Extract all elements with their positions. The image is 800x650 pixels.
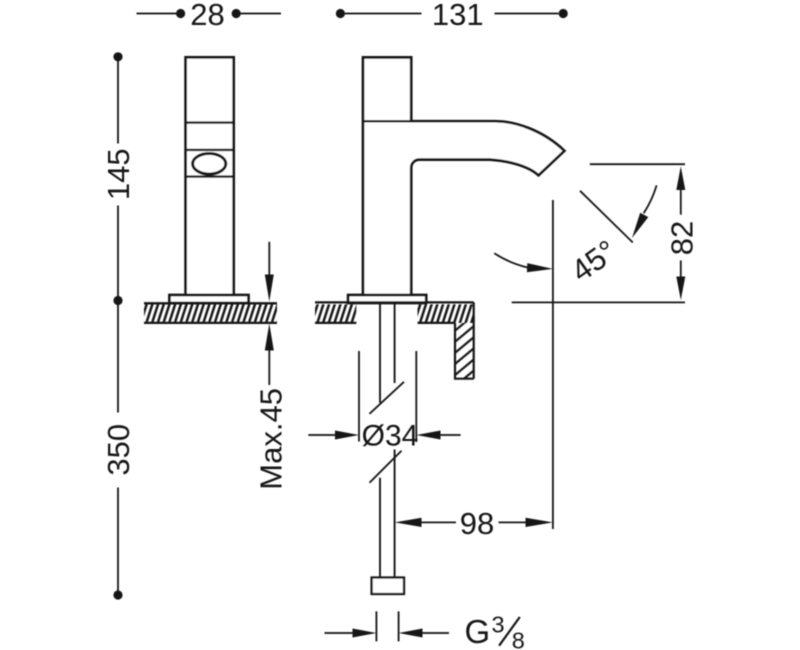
G3/8 arrow right — [399, 629, 449, 638]
svg-text:45°: 45° — [565, 233, 623, 289]
dim 28 leader left — [137, 13, 178, 15]
Max.45 upper arrow — [265, 242, 274, 302]
dim 145-350 dot middle — [113, 296, 122, 305]
svg-text:Ø34: Ø34 — [362, 420, 419, 453]
front countertop hatch — [144, 304, 277, 322]
front body joint lines — [186, 123, 234, 177]
G3/8 fraction slash — [499, 617, 520, 646]
dim 131 dot left — [336, 9, 345, 18]
pipe break mark lower — [370, 451, 402, 483]
svg-text:G: G — [465, 613, 491, 650]
dim 131 dot right — [559, 9, 568, 18]
countertop level line right — [512, 301, 685, 303]
G3/8 arrow left — [325, 629, 377, 638]
dia 34 extension line left — [358, 351, 360, 442]
svg-text:350: 350 — [101, 424, 136, 476]
dim 28 leader right — [240, 13, 281, 15]
svg-text:98: 98 — [460, 506, 494, 541]
side countertop left hatch — [315, 304, 356, 323]
45 deg water direction line — [580, 191, 633, 243]
svg-text:Max.45: Max.45 — [253, 388, 288, 490]
svg-text:131: 131 — [432, 0, 484, 32]
dim 82 top reference line — [590, 163, 685, 165]
dim 82 arrow down — [676, 260, 685, 300]
side countertop edge leg hatch — [455, 323, 474, 379]
dia 34 arrow right — [416, 431, 460, 440]
front aerator ellipse — [193, 154, 226, 175]
svg-text:3: 3 — [492, 612, 505, 638]
side base plate — [348, 295, 426, 303]
G3/8 extension line right — [398, 611, 400, 641]
45 deg arc left with arrow — [494, 253, 553, 272]
G3/8 extension line left — [375, 611, 377, 641]
supply pipe right line — [394, 303, 396, 578]
front countertop bottom line — [144, 322, 277, 324]
svg-text:145: 145 — [101, 148, 136, 200]
svg-text:8: 8 — [512, 628, 525, 650]
dim 28 dot left — [176, 9, 185, 18]
side countertop right bottom line — [418, 322, 456, 324]
side countertop leg outline — [455, 302, 474, 378]
supply pipe left line — [379, 303, 381, 578]
dim 145-350 dot bottom — [113, 590, 122, 599]
side countertop right hatch — [418, 304, 474, 323]
Max.45 lower arrow — [265, 324, 274, 386]
side countertop top line — [315, 301, 474, 303]
dim 28 dot right — [232, 9, 241, 18]
pipe break mark upper — [370, 382, 405, 414]
svg-text:82: 82 — [664, 221, 699, 255]
dim 82 arrow up — [676, 166, 685, 214]
front countertop top line — [144, 302, 277, 304]
side handle joint line — [363, 120, 411, 122]
dim 145-350 vertical line — [117, 57, 119, 595]
front view faucet body — [186, 57, 234, 295]
front base plate — [169, 295, 248, 303]
dim 98 arrow left — [395, 518, 456, 527]
dim 98 arrow right — [499, 518, 553, 527]
dim 145-350 dot top — [113, 52, 122, 61]
side view faucet outline — [363, 57, 564, 295]
outlet centerline — [552, 200, 554, 529]
dia 34 extension line right — [415, 351, 417, 442]
svg-text:28: 28 — [190, 0, 224, 32]
dim 131 leader left — [345, 13, 422, 15]
dim 131 leader right — [495, 13, 559, 15]
45 deg arc right with arrow — [632, 185, 657, 238]
shank nut — [372, 578, 404, 595]
dia 34 arrow left — [308, 431, 359, 440]
side countertop left bottom line — [315, 322, 356, 324]
